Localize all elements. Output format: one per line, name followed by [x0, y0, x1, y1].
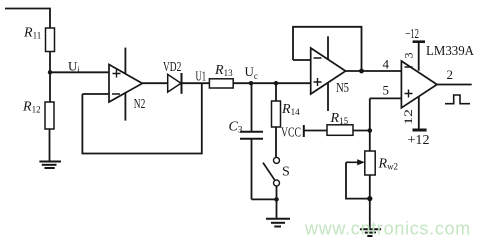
svg-text:S: S	[282, 165, 290, 180]
wire node Ui to N2 plus input	[50, 71, 109, 73]
wire R14 branch	[275, 83, 277, 157]
wire ground stem bottom right	[369, 199, 371, 229]
op-amp N2 minus sign	[112, 93, 120, 95]
node Ui junction dot	[48, 70, 52, 74]
op-amp N2 power pin top	[124, 48, 126, 74]
comparator plus sign	[405, 90, 413, 98]
svg-text:N2: N2	[134, 97, 146, 112]
svg-text:Ui: Ui	[68, 59, 80, 76]
potentiometer Rw2 body	[365, 151, 375, 175]
svg-text:LM339A: LM339A	[426, 44, 475, 59]
resistor R11	[46, 28, 55, 52]
resistor R13	[209, 79, 233, 88]
svg-text:VCC: VCC	[281, 126, 301, 141]
op-amp N5 power pin bottom	[327, 83, 329, 111]
junction dot R15-Rw2 rail	[368, 128, 373, 133]
junction dot Rw2 wiper-ground	[367, 196, 372, 201]
wire input top-left	[5, 9, 50, 29]
ground (left, under R12)	[39, 162, 61, 169]
wire N5 output to comparator pin4	[346, 70, 402, 72]
svg-text:R13: R13	[214, 63, 233, 78]
wire pin5 rail down to Rw2	[369, 98, 371, 198]
wire ground stem middle	[276, 199, 278, 218]
resistor R15	[327, 125, 353, 136]
comparator minus sign	[405, 66, 413, 68]
wire R15 to rail junction	[353, 130, 370, 132]
svg-text:www.cntronics.com: www.cntronics.com	[304, 219, 471, 239]
svg-text:−12: −12	[406, 27, 420, 42]
wire N5 feedback loop	[293, 27, 362, 71]
op-amp N2 plus sign	[113, 70, 121, 78]
svg-text:R15: R15	[330, 111, 349, 126]
wire comparator output pin2	[437, 84, 472, 86]
capacitor C3 plates	[240, 132, 263, 139]
svg-text:R11: R11	[23, 26, 41, 41]
square wave symbol	[445, 95, 470, 104]
wire N2 output to diode	[142, 82, 167, 84]
svg-text:+12: +12	[408, 133, 430, 148]
junction dot switch-C3-ground	[274, 197, 279, 202]
svg-text:U1: U1	[196, 69, 207, 84]
ground (middle, under switch)	[266, 219, 290, 227]
op-amp N5 minus sign	[314, 57, 322, 59]
resistor R12	[45, 102, 54, 129]
node Uc junction dot	[249, 81, 253, 85]
wire R12 to ground	[49, 129, 51, 162]
wire R13 to N5 plus input	[233, 82, 311, 84]
svg-text:R12: R12	[22, 100, 41, 115]
wire R11 to R12	[49, 52, 51, 103]
svg-text:5: 5	[383, 83, 390, 98]
node R14 junction dot	[274, 81, 278, 85]
diode VD2	[168, 73, 182, 94]
svg-text:2: 2	[447, 67, 454, 82]
wire diode to R13	[182, 82, 209, 84]
svg-text:Uc: Uc	[245, 64, 258, 81]
wire VCC to R15	[304, 130, 327, 132]
supply pin -12 top	[413, 42, 425, 71]
potentiometer Rw2 wiper arrow	[346, 159, 365, 165]
ground (right, under Rw2)	[360, 229, 381, 236]
op-amp N5 power pin top	[327, 36, 329, 60]
wire switch to junction	[276, 186, 278, 199]
svg-text:Rw2: Rw2	[378, 157, 399, 172]
wire pin5 to comparator	[370, 97, 402, 99]
svg-text:N5: N5	[336, 81, 349, 96]
switch S	[263, 157, 280, 186]
svg-text:VD2: VD2	[163, 60, 181, 75]
svg-text:C3: C3	[229, 120, 243, 135]
op-amp N2	[109, 65, 142, 103]
svg-text:12: 12	[401, 109, 415, 125]
wire Rw2 wiper return	[346, 162, 370, 198]
svg-text:3: 3	[402, 53, 416, 59]
op-amp N2 power pin bottom	[124, 93, 126, 121]
svg-text:4: 4	[383, 57, 390, 72]
wire N2 minus input feedback	[82, 83, 201, 153]
comparator U1 LM339A	[401, 61, 437, 108]
svg-text:R14: R14	[281, 102, 300, 117]
op-amp N5 plus sign	[314, 78, 322, 86]
wire C3 branch	[252, 83, 277, 199]
resistor R14	[272, 101, 281, 127]
junction dot N5 output	[359, 69, 364, 74]
op-amp N5	[311, 48, 346, 94]
supply pin +12 bottom	[413, 96, 427, 130]
VCC terminal bar	[303, 125, 305, 137]
